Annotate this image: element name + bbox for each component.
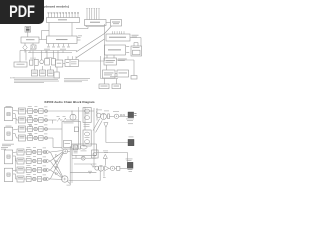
optional output jack box J2 (double) [131,46,142,56]
wire down to mix jack [105,127,107,142]
label above J3 [126,158,133,161]
output pad rect [117,166,120,170]
wire engine bottom bus [85,26,87,27]
wire ROM to main board [71,23,73,37]
effects frame [72,144,96,155]
up amp triangle [103,154,107,158]
connector stub marks [120,115,122,116]
DSP tall box T3 [4,150,12,164]
main board right stubs [77,37,81,39]
vertical bus right of sums [69,146,71,185]
mixer circle 2 [45,119,48,122]
PDF badge overlay [0,0,44,24]
anti-alias filter box [28,127,33,132]
connector pins above engine box U2 [86,8,88,19]
anti-alias filter box [26,159,31,164]
wire PS stubs down [24,43,26,45]
jack box top stubs [133,43,135,47]
wire cluster to jack [109,115,114,117]
DSP tall box T1 [4,108,12,121]
wire diagonal bus D1 [76,34,105,53]
row4 wire L-shape [48,137,53,139]
headphone sum circle B with arrow [101,113,107,119]
vertical mix bus 2 [84,107,86,130]
wire ROM left drop [48,23,50,31]
liquid crystal display box [14,62,27,67]
bottom rail [69,180,101,182]
gain box [37,177,41,182]
gain box [39,109,43,114]
wire T1 to power supply [27,32,29,37]
mixer circle [33,159,36,162]
row3 wire into enclosure [48,128,62,130]
VCA frame F1 [83,108,91,123]
bottom row rotary encoder circle [40,60,44,64]
effects mixer circle [81,156,85,160]
audio chain row y=170: DAC box [17,167,24,173]
anti-alias filter box [26,150,31,155]
power supply box PS1 [21,37,39,43]
power connector J0 [31,45,36,49]
audio chain row y=161: DAC box [17,158,24,164]
audio chain row y=152: DAC box [17,149,24,155]
bottom row small box M1 [30,60,33,65]
second row box N2 [39,70,45,76]
row1 wire to mix bus [48,110,94,112]
gain box [37,159,41,164]
wire second row drops [34,66,36,70]
bottom row small box M3 [45,59,50,66]
wire second bus line [28,52,72,54]
wire P2 to B1 [78,60,104,62]
mixer circle [33,150,36,153]
wire diagonal bus D2 [76,39,105,58]
wire U3 down-left diagonal [105,26,112,34]
right sum node circle [62,176,68,182]
switch box S1 [99,84,109,89]
wire bus drops to bottom row [19,51,21,63]
wires below master cluster [99,171,101,181]
wire y172 with pot symbol [70,171,96,173]
transformer T1 [25,27,31,33]
connector pins above sound ROM board U1 [48,13,50,17]
cross-mix diagonals [50,151,63,153]
aux box with circle [92,150,99,158]
wire top-left corner net [41,31,43,40]
headphone sum circle A [97,113,101,117]
engine box U2 [85,20,107,26]
caption under section 1 [2,143,14,146]
main board bottom pin stubs [48,44,50,47]
T3 T4 fanout crossing wires [13,151,17,154]
AC plug P1 [23,45,28,51]
wire bottom rail [101,78,119,80]
anti-alias filter box [26,177,31,182]
switch box S2 [112,84,121,89]
master sum circle B2 [98,166,104,172]
transfer board right tick labels [126,45,129,48]
mixer circle 2 [43,151,46,154]
volume circle C [114,114,118,118]
second row box N3 [47,70,53,76]
master amp triangle [105,166,109,171]
sub panel box U3 [111,20,122,27]
engine board right label [132,34,139,37]
effects hatch box [73,145,77,150]
svg-text:K2500 Audio Chain Block Diagra: K2500 Audio Chain Block Diagram [45,100,95,104]
labels above cluster [96,109,102,112]
wire B1-B2 stub [106,65,108,70]
small box far right [131,76,137,80]
mixer circle 2 [43,178,46,181]
gain box [39,136,43,141]
amp triangle [47,168,50,172]
anti-alias filter box [28,118,33,123]
engine I/O box B1 [104,58,117,65]
wire vertical bus right [104,24,106,61]
wire P1-P2 link [63,63,65,65]
audio chain row y=179: DAC box [17,176,24,182]
amp triangle [47,150,50,154]
keyboard pins above engine board [112,31,114,34]
wire top rail to J3 [96,152,127,154]
amp triangle [47,177,50,181]
gain box [39,127,43,132]
note paragraph right [64,77,90,80]
mono amp triangle down [104,123,108,128]
box P3 below [54,72,59,78]
mixer circle [34,127,37,130]
second row box N1 [31,70,37,76]
box B2 [103,70,116,78]
anti-alias filter box [26,168,31,173]
effects oval [80,145,87,149]
wire B1 right net [117,59,135,61]
ticks below J3 [128,168,133,171]
wire U5 to jack box [130,37,141,39]
DSP tall box T2 [4,127,12,140]
mixer circle 2 [45,137,48,140]
row2 stub down [52,120,54,124]
audio chain row y=111: DAC box [18,108,25,114]
enclosure inner box [64,141,72,148]
B1 right label [118,58,127,61]
wire y164 with arrow [74,163,96,165]
level bar [108,114,110,119]
wires S1 S2 up [104,79,106,85]
KDS label [1,146,8,149]
anti-alias filter box [28,109,33,114]
sound ROM board box U1 [47,18,80,23]
panel box P2 with divider [65,60,78,67]
wire left vertical to B-row [100,56,102,79]
VCA frame F2 [83,130,91,146]
transfer board box U6 [105,45,126,55]
label under jack J1 [126,118,134,121]
row2 wire with pan pots [48,119,56,121]
bottom row small box M2 [34,59,38,65]
inter-row plus marks [30,116,32,118]
mixer circle [33,168,36,171]
wire sumA2 feed [94,166,96,167]
pan sum circle [70,114,76,120]
master sum circle A2 [95,166,99,170]
DSP tall box T4 [4,168,12,181]
mixer circle 2 [43,169,46,172]
mixer circle 2 [45,128,48,131]
vertical buses to lower section [93,108,95,166]
anti-alias filter box [28,136,33,141]
bottom row small box M4 [51,59,55,66]
gain box [37,150,41,155]
wire drop to pan circle [71,111,73,114]
wire transfer down stubs [106,55,108,58]
box B3 [117,70,129,77]
vertical mix bus 1 [78,107,80,149]
T1 output wires [13,110,19,113]
wire P1 P2 stubs up [57,57,59,61]
mixer circle [33,177,36,180]
mixer circle 2 [43,160,46,163]
mixer circle [34,118,37,121]
main processor board box U4 [47,36,78,44]
small buffer triangles on diagonals [56,154,58,156]
audio chain row y=129: DAC box [18,126,25,132]
mixer circle [34,136,37,139]
audio chain row y=138: DAC box [18,135,25,141]
wire U2 to U3 [106,22,111,24]
gain box [39,118,43,123]
engine board box U5 [106,34,130,41]
wire sum to bus [68,150,71,152]
headphone jack J1 (dark) [128,112,134,118]
large enclosure box [62,122,81,150]
left sum node circle [63,149,68,154]
mixer circle [34,109,37,112]
wire horizontal bus below main board [22,50,77,52]
wire PS to main board [39,39,47,41]
mix out jack J2 (dark) [128,139,134,145]
gain box [37,168,41,173]
amp triangle [47,159,50,163]
wire engine bus corner [87,27,89,29]
diagonal feeds into cluster [93,119,100,131]
T1-T2 crossing wires [13,118,16,120]
mixer circle 2 [45,110,48,113]
panel box P1 [55,60,62,67]
wire B2-B3 [115,73,117,75]
small box on bus [74,127,78,132]
audio chain row y=120: DAC box [18,117,25,123]
main out jack J3 (dark) [127,162,133,168]
master volume circle [110,166,114,170]
